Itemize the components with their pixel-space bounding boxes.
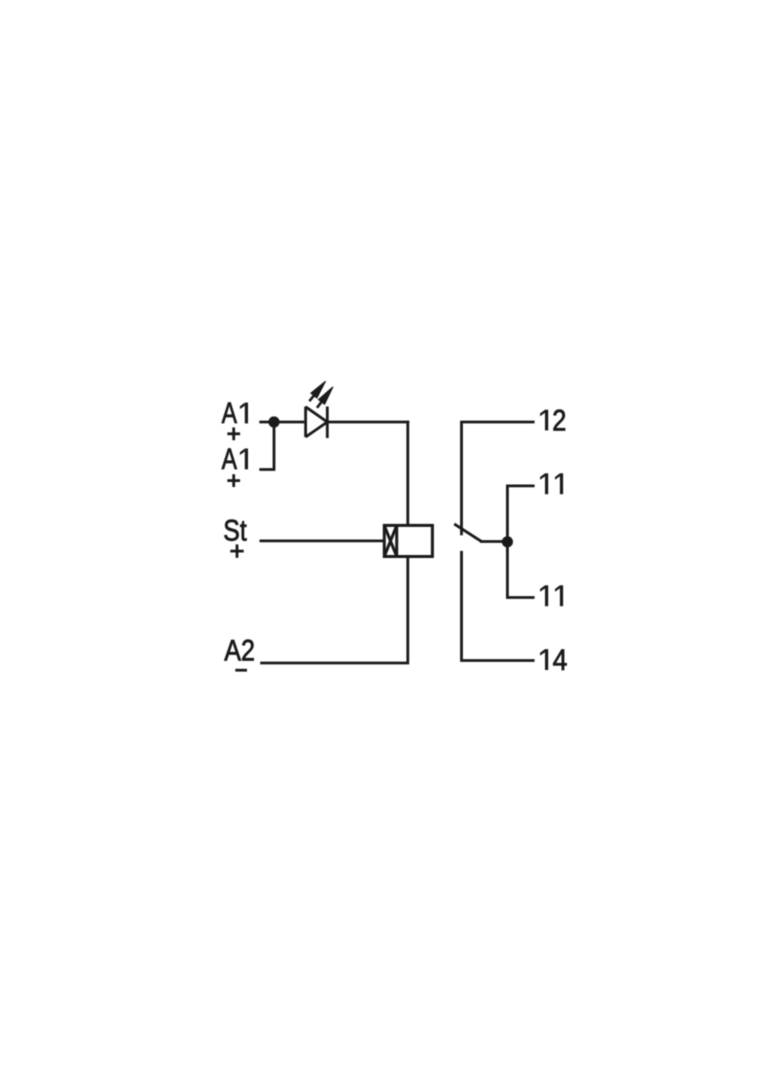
svg-text:A: A xyxy=(222,443,237,476)
svg-text:2: 2 xyxy=(552,404,566,437)
svg-text:A2: A2 xyxy=(224,634,255,667)
svg-text:St: St xyxy=(223,514,247,547)
svg-text:A: A xyxy=(222,397,237,430)
svg-text:4: 4 xyxy=(553,644,568,677)
